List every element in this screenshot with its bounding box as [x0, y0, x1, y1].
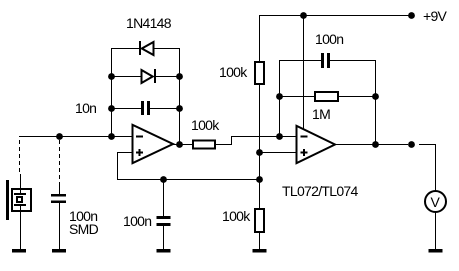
- wire: bias net horizontal y=179: [117, 179, 260, 180]
- capacitor C3 100n: top plate: [157, 216, 171, 219]
- capacitor C3 100n: top lead: [163, 180, 164, 216]
- node: dot feedback / output: [372, 141, 379, 148]
- wire: dashed drop to piezo: [19, 140, 21, 174]
- capacitor C1 100n SMD: bottom plate: [51, 201, 66, 204]
- wire: main input net at y=136 from x=19 to op-amp U1a inverting input: [19, 136, 132, 137]
- op-amp U1a: plus symbol vertical: [139, 149, 141, 156]
- capacitor C1 100n SMD: top plate: [51, 194, 66, 197]
- wire: divider vertical x=259: [259, 84, 260, 209]
- wire: C2 row left segment: [111, 108, 141, 109]
- piezo transducer X1: left electrode bar: [6, 180, 9, 220]
- node: dot x=279 / 1M row: [276, 93, 283, 100]
- wire: D2 row right segment: [156, 76, 180, 77]
- svg-text:+9V: +9V: [423, 8, 448, 24]
- diode D2 1N4148: bar: [154, 69, 156, 83]
- svg-text:100k: 100k: [222, 208, 251, 224]
- ground: under piezo X1: [12, 249, 26, 253]
- ground: under C3: [157, 249, 171, 253]
- wire: U1b non-inverting input from divider: [259, 152, 296, 153]
- op-amp U1a: triangle: [133, 125, 174, 163]
- op-amp U1b: triangle: [297, 126, 336, 163]
- resistor R4 1M: body: [315, 92, 338, 101]
- wire: dashed drop to C1: [59, 140, 61, 186]
- wire: R1 to corner: [216, 144, 232, 145]
- svg-text:1N4148: 1N4148: [126, 15, 172, 31]
- svg-text:V: V: [431, 194, 441, 210]
- diode D2 1N4148 (cathode right): triangle pointing right: [142, 70, 153, 83]
- capacitor C4 100n: left plate: [321, 53, 324, 68]
- node: +9V terminal dot: [408, 12, 415, 19]
- diode D1 1N4148: triangle pointing left: [142, 42, 154, 55]
- capacitor C3 100n: bottom lead: [163, 226, 164, 249]
- resistor R2 100k (divider top): body: [255, 62, 264, 84]
- node: dot left rail / C2 row: [108, 105, 115, 112]
- wire: diode block right rail x=179: [179, 48, 180, 145]
- svg-text:100n: 100n: [123, 213, 151, 229]
- wire: voltmeter lead horizontal: [419, 144, 436, 145]
- wire: voltmeter lead vertical down: [435, 144, 436, 191]
- resistor R3 100k (divider bottom): body: [255, 209, 264, 232]
- node: dot right rail / D2 row: [176, 73, 183, 80]
- resistor R1 100k: body: [193, 141, 215, 149]
- wire: corner up x=231: [231, 136, 232, 145]
- wire: +9V rail y=15: [259, 15, 412, 16]
- wire: D1 row left segment: [111, 48, 140, 49]
- piezo transducer X1: top lead: [20, 174, 21, 193]
- diode D1 1N4148 (cathode left): bar: [139, 41, 141, 55]
- wire: U1a feedback left vertical x=117: [117, 152, 118, 180]
- node: output terminal dot: [408, 141, 415, 148]
- svg-text:1M: 1M: [312, 106, 330, 122]
- wire: U1a non-inverting input stub: [117, 152, 132, 153]
- node: dot divider / U1b + input: [256, 149, 263, 156]
- capacitor C4 100n: right plate: [327, 53, 330, 68]
- capacitor C1 100n SMD: top lead: [59, 186, 60, 194]
- capacitor C2 10n: left plate: [141, 101, 144, 115]
- node: dot right rail / C2 row: [176, 105, 183, 112]
- wire: C4 row right segment: [330, 60, 376, 61]
- op-amp U1b: plus symbol vertical: [303, 149, 305, 156]
- wire: 1M row left segment y=96: [279, 96, 315, 97]
- voltmeter M1: circle: [425, 191, 446, 212]
- capacitor C1 100n SMD: bottom lead: [59, 203, 60, 249]
- capacitor C3 100n: bottom plate: [157, 223, 171, 226]
- wire: feedback right vertical x=375: [375, 60, 376, 145]
- op-amp U1b: plus symbol horizontal: [301, 152, 308, 154]
- capacitor C2 10n: right plate: [147, 101, 150, 115]
- node: dot feedback tap on U1b inverting input: [276, 133, 283, 140]
- piezo transducer X1: crystal square: [17, 197, 22, 202]
- op-amp U1a: minus symbol: [136, 136, 143, 138]
- wire: C4 row left segment y=60: [279, 60, 321, 61]
- node: dot bias net / divider: [256, 176, 263, 183]
- svg-text:100k: 100k: [219, 64, 248, 80]
- svg-text:100n: 100n: [315, 31, 343, 47]
- svg-text:SMD: SMD: [69, 221, 99, 237]
- op-amp U1b: minus symbol: [301, 136, 308, 138]
- ground: under voltmeter: [429, 249, 443, 253]
- svg-text:10n: 10n: [75, 100, 96, 116]
- wire: voltmeter to ground: [435, 212, 436, 249]
- ground: under R3: [253, 249, 267, 253]
- wire: D1 row right segment: [154, 48, 180, 49]
- svg-text:100k: 100k: [191, 117, 220, 133]
- wire: to U1b inverting input y=136: [231, 136, 296, 137]
- op-amp U1a: plus symbol horizontal: [136, 152, 143, 154]
- svg-text:TL072/TL074: TL072/TL074: [282, 183, 358, 199]
- wire: rail corner down to R2: [259, 15, 260, 62]
- wire: R3 to ground: [259, 232, 260, 249]
- wire: U1b output y=144: [335, 144, 376, 145]
- node: dot U1a output / right rail: [176, 141, 183, 148]
- piezo transducer X1: case rectangle: [12, 189, 31, 211]
- wire: 1M row right segment: [339, 96, 376, 97]
- wire: D2 row left segment: [111, 76, 141, 77]
- piezo transducer X1: upper plate: [14, 193, 26, 195]
- wire: U1a output to R1: [173, 144, 193, 145]
- node: junction dot diode-block left rail on input net: [108, 133, 115, 140]
- piezo transducer X1: lower plate: [14, 204, 26, 206]
- node: junction dot C1 tap on input net: [56, 133, 63, 140]
- wire: C2 row right segment: [150, 108, 180, 109]
- node: dot +9V rail / op-amp supply branch: [300, 12, 307, 19]
- wire: U1b V+ supply line x=303: [303, 15, 304, 130]
- node: dot left rail / D2 row: [108, 73, 115, 80]
- node: dot C3 tap on bias net: [160, 176, 167, 183]
- piezo transducer X1: bottom lead: [20, 206, 21, 249]
- wire: feedback left vertical x=279: [279, 60, 280, 137]
- wire: diode block left rail x=111: [111, 48, 112, 137]
- wire: output to terminal: [376, 144, 408, 145]
- node: dot x=375 / 1M row: [372, 93, 379, 100]
- ground: under C1: [52, 249, 66, 253]
